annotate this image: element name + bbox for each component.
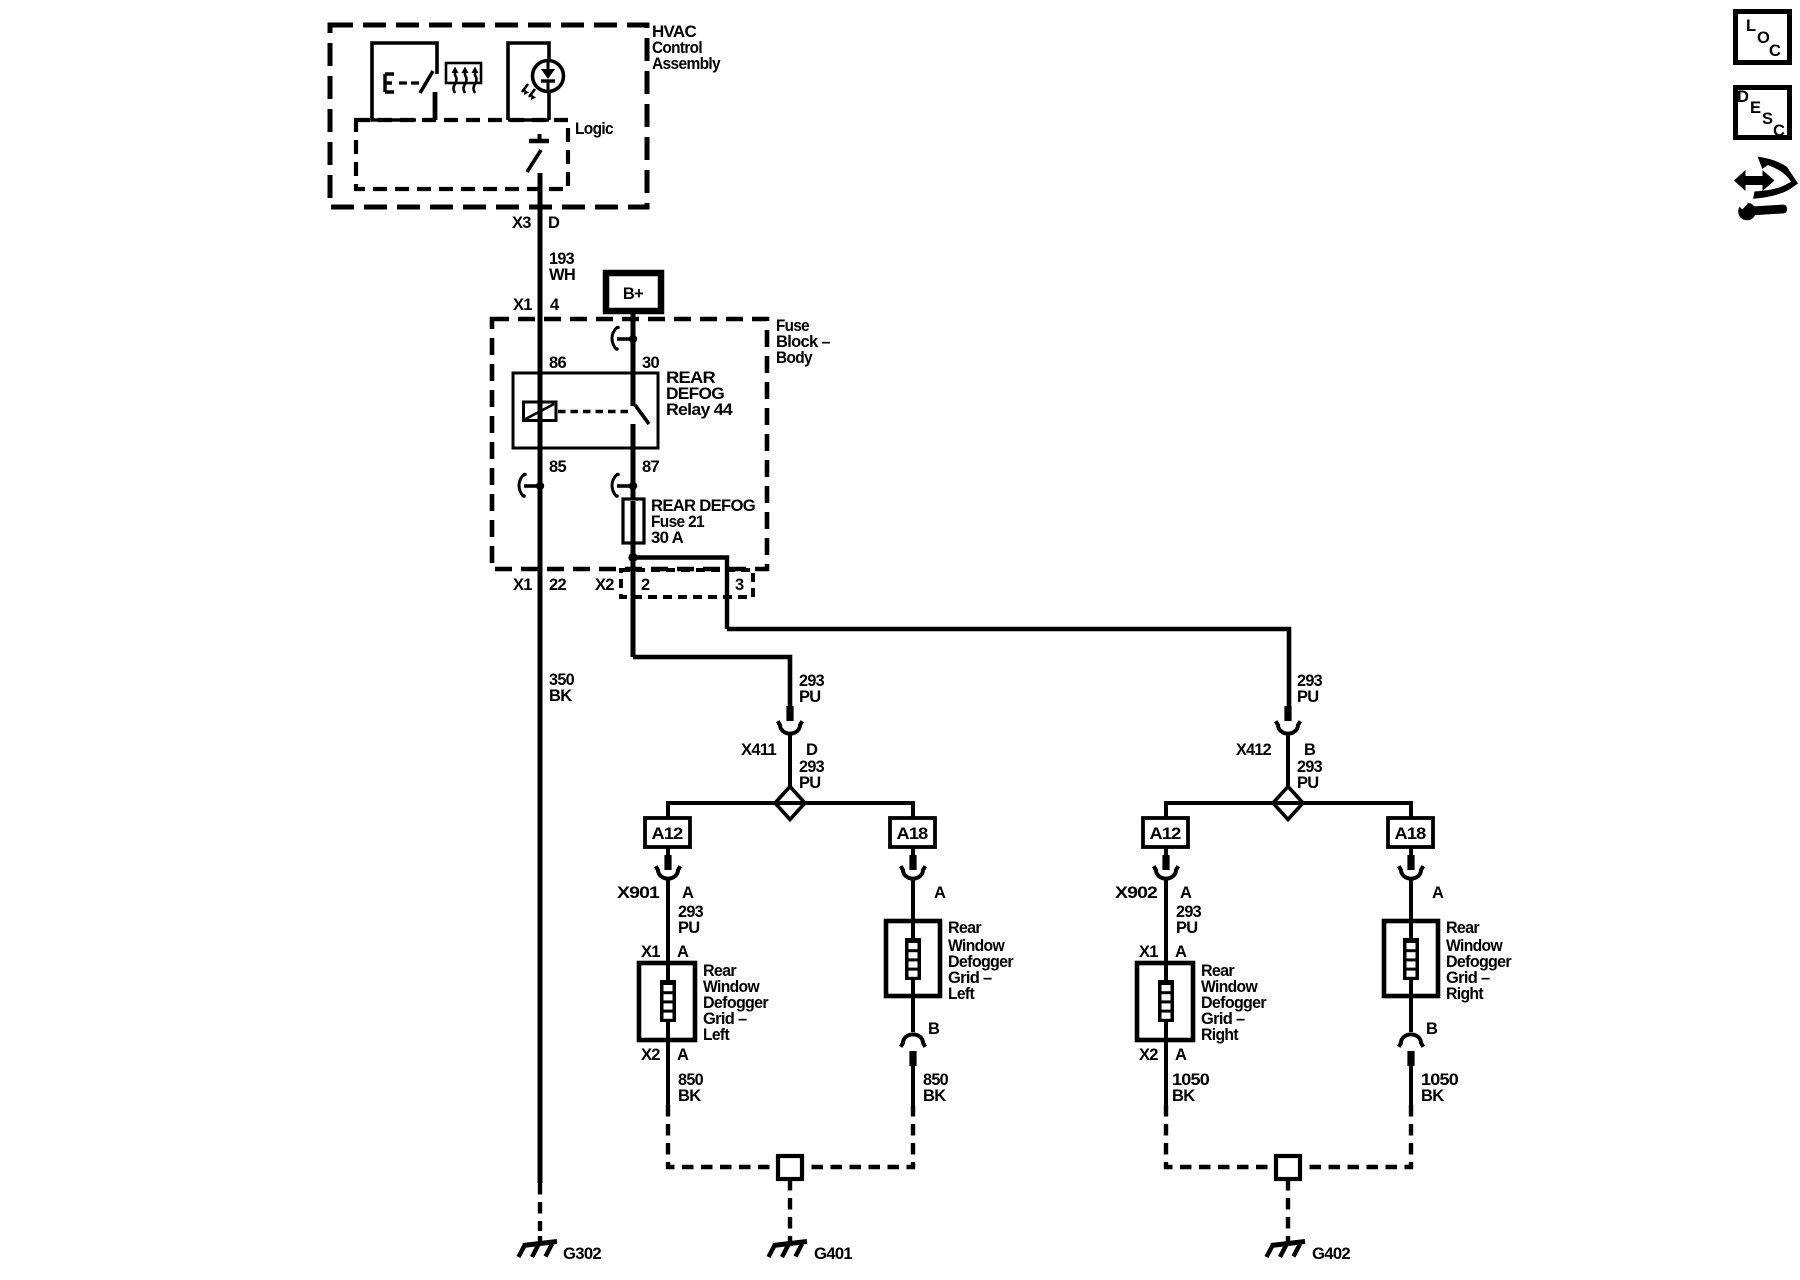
- svg-text:30 A: 30 A: [651, 529, 684, 547]
- svg-text:BK: BK: [678, 1087, 701, 1105]
- switch contact bar: [433, 92, 438, 120]
- wire 193 WH from HVAC X3-D to fuse block X1-4: [538, 173, 543, 1183]
- Fuse Block - Body dashed box: [492, 319, 767, 569]
- switch E label: [385, 74, 394, 92]
- svg-text:BK: BK: [1421, 1087, 1444, 1105]
- svg-text:C: C: [1773, 122, 1785, 140]
- defog switch box: [372, 43, 437, 120]
- svg-text:A: A: [677, 943, 689, 961]
- svg-text:PU: PU: [799, 688, 821, 706]
- svg-text:PU: PU: [678, 919, 700, 937]
- junction node: [628, 553, 637, 562]
- relay coil: [524, 402, 557, 421]
- svg-text:X1: X1: [513, 296, 532, 314]
- svg-text:30: 30: [642, 354, 659, 372]
- coil-to-contact dashed link: [558, 410, 630, 413]
- svg-text:BK: BK: [923, 1087, 946, 1105]
- svg-text:A: A: [677, 1046, 689, 1064]
- svg-text:22: 22: [549, 576, 566, 594]
- B+ battery feed: [606, 273, 661, 311]
- svg-text:PU: PU: [1297, 774, 1319, 792]
- relay contact blade 30-87: [635, 405, 649, 424]
- REAR DEFOG Fuse 21 30A: [623, 499, 644, 543]
- svg-text:Rear: Rear: [948, 919, 982, 937]
- svg-text:X1: X1: [641, 943, 660, 961]
- DESC box: [1736, 88, 1790, 138]
- svg-text:B: B: [1304, 741, 1316, 759]
- svg-text:A: A: [1175, 1046, 1187, 1064]
- clip terminal at 85: [519, 473, 544, 498]
- wire X2-2 to X411: [633, 657, 790, 706]
- HVAC Control Assembly dashed box: [330, 25, 647, 207]
- svg-text:X1: X1: [513, 576, 532, 594]
- svg-text:A: A: [934, 884, 946, 902]
- wire from B+ to relay 30: [631, 311, 636, 406]
- svg-text:85: 85: [549, 458, 566, 476]
- svg-text:D: D: [548, 214, 560, 232]
- X2 connector dashed box: [621, 570, 753, 597]
- svg-text:G302: G302: [563, 1245, 602, 1263]
- svg-text:G401: G401: [814, 1245, 853, 1263]
- svg-text:A18: A18: [897, 825, 929, 843]
- svg-text:X2: X2: [641, 1046, 660, 1064]
- svg-text:Relay 44: Relay 44: [666, 401, 734, 419]
- Logic dashed box: [356, 120, 568, 189]
- svg-text:A: A: [1432, 884, 1444, 902]
- indicator LED box: [508, 43, 549, 120]
- svg-text:Body: Body: [776, 349, 813, 367]
- svg-text:X2: X2: [1139, 1046, 1158, 1064]
- logic switch top contact: [529, 139, 549, 143]
- svg-text:PU: PU: [1297, 688, 1319, 706]
- svg-text:X2: X2: [595, 576, 614, 594]
- svg-text:86: 86: [549, 354, 566, 372]
- logic switch blade: [527, 150, 541, 172]
- svg-text:Rear: Rear: [1446, 919, 1480, 937]
- svg-text:WH: WH: [549, 266, 575, 284]
- switch dashes: [399, 81, 419, 84]
- branch wire to pin 3: [633, 558, 727, 630]
- LED arrows: [522, 84, 535, 97]
- svg-text:Right: Right: [1446, 985, 1484, 1003]
- ground G302: [519, 1236, 558, 1257]
- svg-text:Assembly: Assembly: [652, 55, 721, 73]
- svg-text:PU: PU: [1176, 919, 1198, 937]
- wiring-repair icon: outline arrow: [1753, 157, 1798, 199]
- wire X2-3 to X412: [727, 629, 1289, 706]
- LOC box: [1736, 12, 1790, 63]
- svg-text:C: C: [1769, 42, 1781, 60]
- svg-text:A12: A12: [1150, 825, 1182, 843]
- clip terminal at 87: [612, 473, 637, 498]
- svg-text:S: S: [1762, 110, 1773, 128]
- svg-text:D: D: [1737, 88, 1749, 106]
- svg-text:BK: BK: [1172, 1087, 1195, 1105]
- wiring-repair icon: wrench: [1738, 203, 1756, 221]
- svg-text:BK: BK: [549, 687, 572, 705]
- clip terminal at relay pin 30: [612, 326, 637, 351]
- svg-text:B+: B+: [623, 285, 643, 303]
- svg-text:3: 3: [735, 576, 744, 594]
- REAR DEFOG Relay 44 box: [513, 373, 658, 448]
- svg-text:G402: G402: [1312, 1245, 1351, 1263]
- svg-text:X901: X901: [617, 884, 660, 902]
- svg-text:X3: X3: [512, 214, 531, 232]
- svg-text:X411: X411: [741, 741, 777, 759]
- svg-text:A: A: [1180, 884, 1192, 902]
- svg-text:X1: X1: [1139, 943, 1158, 961]
- svg-text:87: 87: [642, 458, 659, 476]
- svg-text:A: A: [682, 884, 694, 902]
- svg-text:D: D: [806, 741, 818, 759]
- svg-text:PU: PU: [799, 774, 821, 792]
- wiring-repair icon: double-headed arrow: [1734, 170, 1775, 191]
- svg-text:L: L: [1746, 17, 1756, 35]
- switch blade: [420, 71, 433, 93]
- dashed wire 350 BK to G302: [538, 1183, 542, 1231]
- svg-text:B: B: [1426, 1020, 1438, 1038]
- svg-text:X412: X412: [1236, 741, 1271, 759]
- wire relay 87 down: [631, 424, 636, 500]
- svg-text:Logic: Logic: [575, 120, 613, 138]
- svg-text:Right: Right: [1201, 1026, 1239, 1044]
- svg-text:A: A: [1175, 943, 1187, 961]
- svg-text:Left: Left: [948, 985, 975, 1003]
- svg-text:2: 2: [641, 576, 650, 594]
- heater grid icon: [446, 63, 481, 83]
- svg-text:Left: Left: [703, 1026, 730, 1044]
- svg-text:A18: A18: [1395, 825, 1427, 843]
- wire fuse to junction: [631, 541, 636, 657]
- svg-text:B: B: [928, 1020, 940, 1038]
- LED U1: [533, 61, 564, 92]
- svg-text:X902: X902: [1115, 884, 1158, 902]
- svg-text:E: E: [1750, 99, 1761, 117]
- svg-text:A12: A12: [652, 825, 684, 843]
